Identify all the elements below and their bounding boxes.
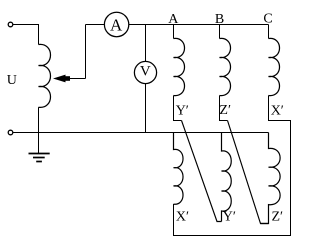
voltmeter PV bbox=[134, 61, 156, 83]
svg-text:X′: X′ bbox=[271, 104, 284, 119]
svg-text:X′: X′ bbox=[176, 210, 189, 225]
svg-text:Z′: Z′ bbox=[272, 210, 284, 225]
terminal J2 (bottom-left input) bbox=[8, 130, 13, 135]
variac wiper arrow bbox=[65, 78, 86, 80]
wire phase B end lead with jog bbox=[220, 96, 228, 121]
wire voltmeter branch bottom bbox=[145, 84, 147, 133]
svg-text:Y′: Y′ bbox=[223, 210, 236, 225]
wire phase A drop bbox=[173, 25, 175, 39]
wire zigzag diagonal B to lower Z' bbox=[228, 121, 269, 224]
terminal J1 (top-left input) bbox=[8, 22, 13, 27]
svg-text:A: A bbox=[110, 15, 123, 34]
wire phase B drop bbox=[219, 25, 221, 39]
wire wiper to bus bbox=[85, 25, 87, 79]
wire J1 to variac top bbox=[13, 25, 39, 45]
ground symbol bbox=[29, 153, 50, 155]
svg-text:Z′: Z′ bbox=[219, 103, 231, 118]
primary winding phase C bbox=[269, 38, 280, 95]
wire phase A end lead with jog bbox=[174, 96, 182, 121]
wire zigzag diagonal A to lower Y' bbox=[182, 121, 222, 222]
secondary winding Z' (under phase C) bbox=[261, 133, 281, 224]
wire phase C end routed around to lower X' bottom bbox=[174, 96, 291, 236]
svg-text:U: U bbox=[7, 73, 17, 88]
secondary winding X' (under phase A) bbox=[174, 133, 184, 205]
svg-text:V: V bbox=[140, 64, 151, 80]
wire wiper-riser to ammeter bbox=[86, 24, 105, 26]
wire ammeter to bus / top bus to phase C corner bbox=[129, 24, 269, 26]
wire bottom return bus bbox=[13, 132, 269, 134]
wire phase C drop bbox=[268, 25, 270, 39]
primary winding phase A bbox=[174, 38, 185, 95]
svg-text:Y′: Y′ bbox=[176, 104, 189, 119]
ammeter PA bbox=[104, 12, 128, 36]
secondary winding Y' (under phase B) bbox=[222, 133, 232, 222]
wire voltmeter branch top bbox=[145, 25, 147, 62]
autotransformer (variac) winding T1 bbox=[39, 44, 51, 107]
wire variac bottom to ground bbox=[38, 107, 40, 153]
primary winding phase B bbox=[220, 38, 231, 95]
svg-text:C: C bbox=[263, 11, 272, 26]
